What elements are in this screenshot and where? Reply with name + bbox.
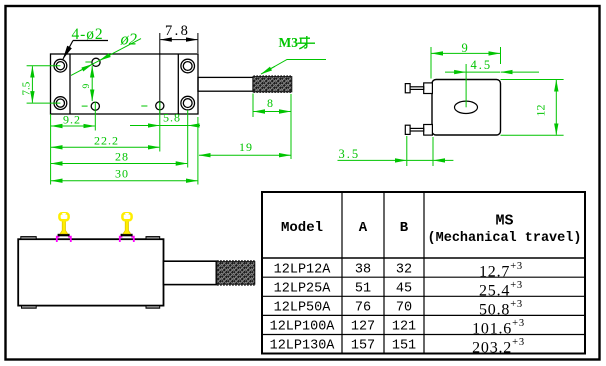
svg-text:12: 12 bbox=[534, 105, 548, 117]
terminal 1 (yellow) bbox=[57, 213, 71, 242]
adjustment slot (ellipse) bbox=[455, 101, 478, 113]
small hole bottom left bbox=[91, 102, 99, 110]
small hole top bbox=[92, 58, 100, 66]
column line 1 bbox=[341, 192, 343, 354]
dimension 8 (thread length) bbox=[253, 94, 291, 160]
extension line right holes 28 bbox=[187, 110, 189, 168]
end-view body bbox=[432, 80, 501, 136]
svg-text:9.2: 9.2 bbox=[63, 113, 81, 127]
side-view threaded stud bbox=[217, 262, 255, 285]
svg-text:5.8: 5.8 bbox=[163, 111, 181, 125]
svg-text:12LP25A: 12LP25A bbox=[274, 281, 332, 296]
terminal pin bottom (end view) bbox=[405, 125, 432, 136]
extension line left edge bbox=[50, 114, 52, 185]
column line 2 bbox=[383, 192, 385, 354]
svg-text:9: 9 bbox=[462, 41, 468, 55]
mounting hole bottom-right bbox=[181, 96, 195, 110]
side-view body bbox=[18, 239, 163, 305]
mounting tab bottom-left bbox=[22, 306, 37, 309]
svg-text:4.5: 4.5 bbox=[471, 58, 493, 72]
mounting tab bottom-right bbox=[146, 306, 160, 309]
svg-text:19: 19 bbox=[239, 140, 253, 154]
svg-text:12LP130A: 12LP130A bbox=[270, 339, 336, 354]
svg-text:A: A bbox=[359, 220, 368, 236]
table frame bbox=[262, 192, 585, 354]
mounting hole top-right bbox=[181, 59, 195, 73]
row lines bbox=[262, 276, 585, 278]
svg-text:22.2: 22.2 bbox=[94, 134, 119, 148]
dimension 30 bbox=[51, 180, 197, 182]
svg-text:76: 76 bbox=[355, 301, 371, 316]
terminal pin top (end view) bbox=[405, 83, 432, 94]
dimension 19 (shaft extension) bbox=[198, 117, 291, 185]
dimension 3.5 (pin offset) bbox=[338, 136, 454, 166]
table data bbox=[270, 262, 417, 353]
svg-text:30: 30 bbox=[115, 167, 129, 181]
dimension 9 (end view width) bbox=[431, 47, 501, 79]
svg-text:51: 51 bbox=[355, 281, 371, 296]
svg-text:3.5: 3.5 bbox=[339, 147, 361, 161]
svg-text:12LP12A: 12LP12A bbox=[274, 262, 332, 277]
svg-text:38: 38 bbox=[355, 262, 371, 277]
svg-text:127: 127 bbox=[351, 320, 375, 335]
mounting tab top-left bbox=[21, 237, 36, 240]
extension line small hole 9.2 bbox=[94, 102, 96, 131]
body outline bbox=[51, 54, 199, 114]
dimension 4.5 bbox=[445, 64, 539, 107]
svg-text:B: B bbox=[400, 220, 409, 236]
svg-text:7.8: 7.8 bbox=[165, 23, 190, 39]
svg-text:M3: M3 bbox=[279, 35, 299, 50]
dimension 12 (end view height) bbox=[501, 80, 564, 136]
dimension 9.2 bbox=[51, 125, 95, 127]
dimension 5.8 (arrows outside) bbox=[130, 125, 200, 127]
svg-text:Model: Model bbox=[281, 220, 323, 236]
svg-text:28: 28 bbox=[115, 150, 129, 164]
centre mark small hole bottom-left bbox=[82, 105, 88, 107]
MS column data (serif with superscript) bbox=[472, 261, 525, 357]
shaft bbox=[198, 77, 253, 91]
svg-text:121: 121 bbox=[392, 320, 416, 335]
svg-text:9: 9 bbox=[82, 84, 92, 89]
svg-text:8: 8 bbox=[267, 96, 273, 110]
header separator bbox=[262, 257, 585, 259]
extension line small hole 22.2 bbox=[159, 102, 161, 152]
small hole bottom right bbox=[156, 102, 164, 110]
dimension 7.8 (black, top) bbox=[160, 33, 198, 114]
centre mark small hole bottom-right bbox=[141, 105, 147, 107]
side-view shaft bbox=[164, 261, 217, 284]
dimension 22.2 bbox=[51, 146, 159, 148]
dimension 7.5 (left, vertical) bbox=[27, 66, 61, 103]
table header text bbox=[281, 213, 581, 247]
svg-text:70: 70 bbox=[396, 301, 412, 316]
dimension 28 bbox=[51, 163, 187, 165]
svg-text:(Mechanical travel): (Mechanical travel) bbox=[428, 231, 582, 246]
svg-text:157: 157 bbox=[351, 339, 375, 354]
svg-text:151: 151 bbox=[392, 339, 416, 354]
svg-text:45: 45 bbox=[396, 281, 412, 296]
column line 3 bbox=[423, 192, 425, 354]
centre mark small hole top bbox=[85, 61, 91, 63]
dimension 9 (between small holes, vertical) bbox=[91, 66, 93, 101]
svg-text:7.5: 7.5 bbox=[21, 81, 33, 95]
right flange line bbox=[177, 54, 179, 114]
svg-text:32: 32 bbox=[396, 262, 412, 277]
svg-text:12LP50A: 12LP50A bbox=[274, 301, 332, 316]
left flange line bbox=[69, 54, 71, 114]
terminal 2 (yellow) bbox=[120, 213, 134, 242]
mounting hole bottom-left bbox=[54, 97, 67, 110]
hand-drawn CJK glyph (thread) bbox=[298, 36, 316, 49]
svg-text:MS: MS bbox=[495, 213, 513, 230]
mounting hole top-left bbox=[54, 59, 67, 72]
mounting tab top-right bbox=[146, 237, 160, 240]
svg-text:12LP100A: 12LP100A bbox=[270, 320, 336, 335]
threaded stud M3 bbox=[253, 77, 292, 92]
